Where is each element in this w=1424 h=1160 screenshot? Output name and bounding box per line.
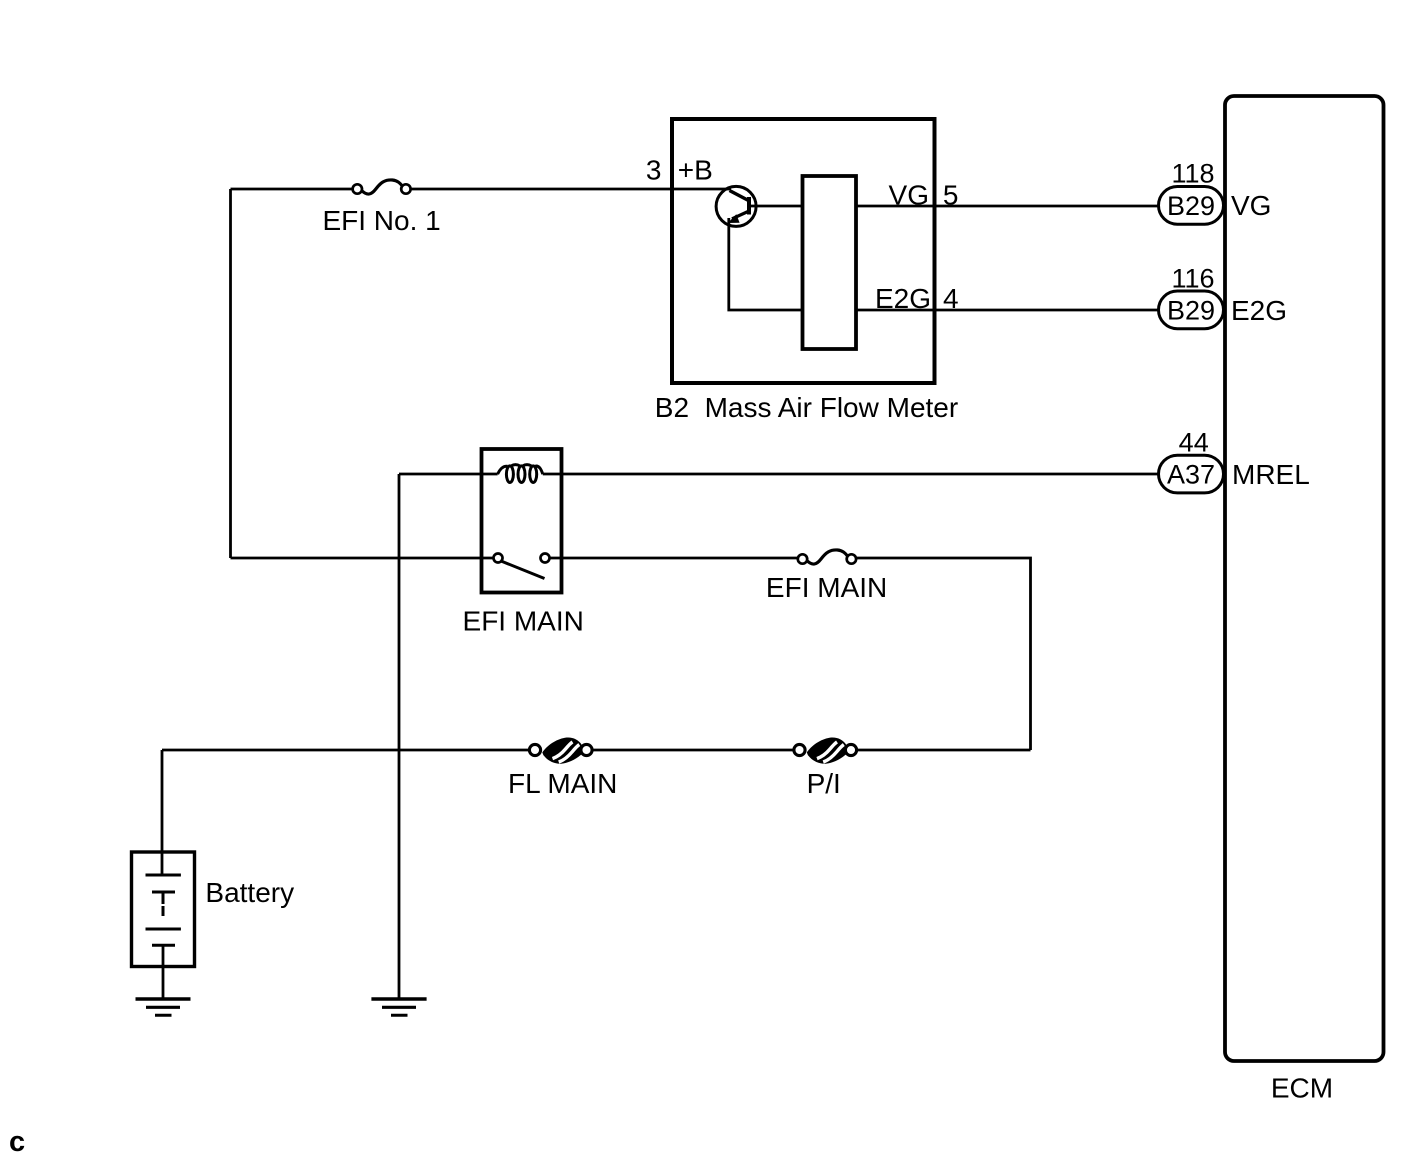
wire vertical from EFI No.1 branch down to relay switch level (229, 189, 232, 558)
svg-text:B29: B29 (1167, 296, 1215, 326)
svg-text:c: c (9, 1126, 25, 1158)
wire from fuse EFI MAIN to right branch corner (856, 558, 1031, 750)
wire from EFI No.1 branch to relay switch (231, 557, 495, 560)
connector A37 pin 44 (MREL) (1159, 455, 1224, 493)
wire VG from sensing element to ECM connector B29 (856, 205, 1159, 208)
svg-text:44: 44 (1179, 427, 1209, 457)
ground below battery (136, 999, 191, 1015)
svg-text:B2 Mass Air Flow Meter: B2 Mass Air Flow Meter (655, 392, 958, 423)
fusible link FL MAIN (529, 738, 592, 764)
svg-text:FL MAIN: FL MAIN (508, 768, 617, 799)
wire from relay switch to fuse EFI MAIN (550, 557, 799, 560)
wire transistor to sensing element (VG level) (749, 205, 803, 208)
ECM box (1225, 96, 1384, 1061)
svg-text:E2G: E2G (1231, 295, 1287, 326)
sensing element resistor (803, 176, 857, 349)
svg-text:P/I: P/I (807, 768, 841, 799)
wire from relay coil to connector A37 MREL (543, 473, 1159, 476)
fuse EFI MAIN (798, 550, 856, 564)
wire battery positive rail (y=750) (162, 749, 530, 752)
svg-text:A37: A37 (1167, 460, 1215, 490)
battery (132, 852, 195, 967)
fuse EFI No. 1 (353, 180, 411, 194)
svg-text:B29: B29 (1167, 191, 1215, 221)
wire from battery rail down to battery (161, 750, 164, 875)
svg-text:EFI No. 1: EFI No. 1 (322, 205, 440, 236)
wire transistor emitter down and right to sensing element (E2G level) (729, 218, 803, 310)
relay EFI MAIN box (482, 449, 562, 593)
relay switch (494, 554, 550, 579)
svg-text:+B: +B (678, 154, 713, 185)
wire between FL MAIN and P/I (592, 749, 794, 752)
wire from fuse EFI No.1 to MAF box +B pin (410, 188, 672, 191)
relay coil (498, 465, 543, 483)
svg-text:118: 118 (1171, 159, 1214, 189)
connector B29 pin 116 (E2G) (1159, 291, 1224, 329)
fusible link P/I (794, 738, 857, 764)
svg-text:116: 116 (1171, 263, 1214, 293)
wire from node at x=230 to fuse EFI No.1 (y=189) (231, 188, 354, 191)
svg-text:MREL: MREL (1232, 459, 1310, 490)
connector B29 pin 118 (VG) (1159, 187, 1224, 225)
wire from battery to ground (162, 945, 165, 999)
wire +B inside MAF box to transistor (672, 188, 731, 191)
wire E2G from sensing element to ECM connector B29 (856, 309, 1159, 312)
wire vertical branch down to ground (x=399) (398, 474, 401, 999)
wire from left branch to relay coil (y=474) (399, 473, 498, 476)
transistor inside MAF meter (716, 186, 756, 226)
ground below relay branch (371, 999, 426, 1015)
svg-text:VG: VG (1231, 190, 1271, 221)
B2 Mass Air Flow Meter box (672, 119, 935, 383)
svg-text:Battery: Battery (205, 877, 294, 908)
wire from P/I to right branch corner (856, 749, 1031, 752)
svg-text:EFI MAIN: EFI MAIN (766, 572, 887, 603)
svg-text:ECM: ECM (1271, 1073, 1333, 1104)
svg-text:3: 3 (646, 154, 662, 185)
svg-text:EFI MAIN: EFI MAIN (463, 605, 584, 636)
